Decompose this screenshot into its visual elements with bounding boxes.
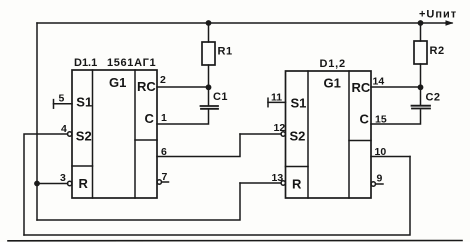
net label +Upit supply [419, 9, 457, 21]
svg-text:+Uпит: +Uпит [419, 9, 457, 21]
svg-text:S2: S2 [76, 128, 92, 143]
pin number 10 [375, 146, 387, 158]
label R D1.1 [79, 176, 89, 191]
label S2 D1.2 [290, 129, 306, 144]
D1.2 divider left column [307, 71, 309, 198]
pin number 15 [375, 114, 387, 126]
wire pin 12 S2 input D1.2 [240, 133, 281, 135]
svg-text:R: R [292, 177, 302, 192]
inversion bubble pin 7 output D1.1 [157, 180, 161, 184]
svg-text:S1: S1 [76, 95, 92, 110]
pin number 6 [161, 146, 167, 158]
label S2 D1.1 [76, 128, 92, 143]
label RC D1.2 [352, 80, 371, 95]
pin number 1 [161, 112, 167, 124]
svg-text:1: 1 [161, 112, 167, 124]
node junction pin3 [34, 181, 40, 187]
svg-text:2: 2 [160, 74, 166, 86]
wire left vertical from rail to R inputs [36, 23, 38, 220]
pin number 12 [274, 122, 286, 134]
svg-text:14: 14 [373, 76, 385, 88]
svg-text:7: 7 [162, 171, 168, 183]
pin number 4 [61, 123, 67, 135]
pin number 2 [160, 74, 166, 86]
D1.2 divider R section [286, 166, 309, 168]
value label C1 [213, 91, 228, 103]
svg-text:R: R [79, 176, 89, 191]
pin 11 stub S1 D1.2 [268, 98, 286, 107]
wire R bus bottom [37, 183, 240, 220]
D1.1 divider left column [92, 70, 94, 198]
wire +U supply rail top [37, 22, 446, 24]
svg-text:10: 10 [375, 146, 387, 158]
svg-text:D1,2: D1,2 [320, 58, 346, 70]
value label C2 [426, 92, 441, 104]
op-amp U1 outline: monostable D1.1 box [72, 70, 157, 198]
wire pin 1 C D1.1 [157, 110, 209, 124]
svg-text:12: 12 [274, 122, 286, 134]
svg-text:13: 13 [272, 172, 284, 184]
D1.1 divider RC section [135, 139, 157, 141]
pin number 3 [60, 172, 66, 184]
pin 7 stub [162, 181, 169, 183]
label G1 D1.2 [324, 76, 341, 91]
label RC D1.1 [137, 79, 156, 94]
svg-text:9: 9 [377, 173, 383, 185]
monostable D1.2 box [286, 71, 372, 198]
pin number 14 [373, 76, 385, 88]
svg-text:S2: S2 [290, 129, 306, 144]
label R D1.2 [292, 177, 302, 192]
label D1.2 [320, 58, 346, 70]
svg-text:4: 4 [61, 123, 67, 135]
wire pin 15 C D1.2 [371, 110, 421, 124]
node junction top rail R2 [418, 20, 424, 26]
wire R2 branch [420, 23, 422, 105]
label S1 D1.2 [291, 96, 307, 111]
wire pin 14 RC D1.2 [371, 86, 421, 88]
label S1 D1.1 [76, 95, 92, 110]
svg-text:R2: R2 [430, 45, 445, 57]
svg-text:3: 3 [60, 172, 66, 184]
svg-text:11: 11 [271, 92, 282, 104]
wire pin 2 RC D1.1 [157, 86, 209, 88]
capacitor C2 [412, 106, 431, 109]
label G1 D1.1 [109, 75, 126, 90]
svg-text:S1: S1 [291, 96, 307, 111]
scan edge bottom [8, 240, 462, 242]
label C D1.2 [360, 112, 370, 127]
svg-text:C: C [145, 111, 155, 126]
wire pin 4 S2 input D1.1 [24, 134, 68, 235]
svg-text:G1: G1 [324, 76, 341, 91]
wire feedback bottom pin10 to pin4 [24, 157, 410, 236]
label D1.1 [74, 57, 97, 69]
svg-text:C1: C1 [213, 91, 228, 103]
value label R1 [218, 46, 233, 58]
resistor R1 [202, 42, 215, 65]
wire pin 3 R input D1.1 [37, 183, 68, 185]
wire pin 10 output D1.2 [371, 156, 410, 158]
pin number 11 [271, 92, 282, 104]
svg-text:R1: R1 [218, 46, 233, 58]
svg-text:RC: RC [137, 79, 156, 94]
wire R1 branch [208, 23, 210, 105]
wire supply arrow [446, 20, 454, 25]
svg-text:5: 5 [59, 93, 65, 105]
svg-text:RC: RC [352, 80, 371, 95]
inversion bubble pin 13 R D1.2 [281, 181, 285, 185]
svg-text:C2: C2 [426, 92, 441, 104]
pin 5 stub S1 D1.1 [54, 100, 73, 109]
svg-text:6: 6 [161, 146, 167, 158]
D1.1 divider right column [134, 70, 136, 198]
node junction top rail R1 [206, 20, 212, 26]
svg-text:G1: G1 [109, 75, 126, 90]
resistor R2 [414, 41, 427, 64]
D1.1 divider R section [72, 165, 93, 167]
pin number 7 [162, 171, 168, 183]
pin number 13 [272, 172, 284, 184]
inversion bubble pin 12 S2 D1.2 [281, 132, 285, 136]
D1.2 divider RC section [349, 140, 371, 142]
wire pin 6 output D1.1 to pin 12 [157, 134, 240, 157]
value label R2 [430, 45, 445, 57]
label 1561AG1 type [107, 57, 156, 69]
D1.2 divider right column [348, 71, 350, 198]
inversion bubble pin 9 output D1.2 [371, 182, 375, 186]
inversion bubble pin 3 R D1.1 [68, 181, 72, 185]
wire pin 13 R input D1.2 [240, 182, 281, 184]
node junction RC2 [418, 84, 424, 90]
svg-text:15: 15 [375, 114, 387, 126]
pin number 9 [377, 173, 383, 185]
pin number 5 [59, 93, 65, 105]
svg-text:C: C [360, 112, 370, 127]
svg-text:1561АГ1: 1561АГ1 [107, 57, 156, 69]
node junction RC1 [206, 84, 212, 90]
pin 9 stub [376, 183, 384, 185]
label C D1.1 [145, 111, 155, 126]
inversion bubble pin 4 S2 D1.1 [68, 132, 72, 136]
svg-text:D1.1: D1.1 [74, 57, 97, 69]
capacitor C1 [201, 106, 219, 109]
